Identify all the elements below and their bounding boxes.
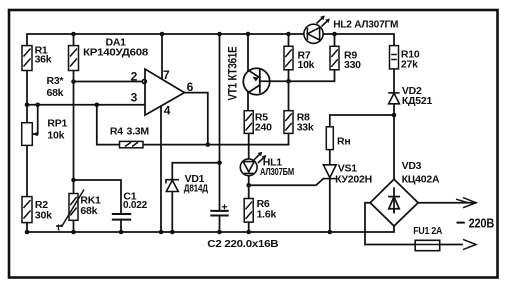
svg-text:330: 330 [344,59,361,71]
svg-text:VD3: VD3 [402,160,422,172]
svg-text:HL2 АЛ307ГМ: HL2 АЛ307ГМ [333,19,398,31]
svg-text:АЛ307БМ: АЛ307БМ [260,166,294,178]
svg-text:3.3M: 3.3M [127,126,150,138]
svg-text:240: 240 [255,122,272,134]
svg-text:R3*: R3* [47,75,65,87]
svg-text:КЦ402А: КЦ402А [402,174,440,186]
svg-text:3: 3 [131,90,138,104]
svg-text:10k: 10k [298,59,315,71]
svg-text:C2 220.0x16В: C2 220.0x16В [207,238,279,250]
svg-text:FU1 2А: FU1 2А [413,225,443,237]
svg-text:RP1: RP1 [47,118,67,130]
svg-text:t°: t° [57,223,64,233]
svg-text:68k: 68k [80,205,97,217]
svg-text:КР140УД608: КР140УД608 [83,47,148,59]
svg-text:7: 7 [163,68,170,82]
svg-text:КД521: КД521 [402,95,433,107]
svg-text:R4: R4 [110,126,123,138]
svg-text:4: 4 [164,103,171,117]
svg-text:220В: 220В [469,217,495,231]
svg-text:27k: 27k [401,59,418,71]
svg-text:2: 2 [131,70,138,84]
svg-text:VT1 КТ361Е: VT1 КТ361Е [226,46,240,100]
svg-text:Rн: Rн [337,136,350,148]
svg-text:6: 6 [187,80,194,94]
svg-text:30k: 30k [35,210,52,222]
svg-text:33k: 33k [297,122,314,134]
svg-text:0.022: 0.022 [123,199,147,211]
svg-text:1.6k: 1.6k [257,209,277,221]
svg-text:Д814Д: Д814Д [184,183,209,195]
svg-text:36k: 36k [35,54,52,66]
svg-text:КУ202Н: КУ202Н [335,174,372,186]
svg-text:10k: 10k [47,130,64,142]
svg-text:68k: 68k [47,87,64,99]
